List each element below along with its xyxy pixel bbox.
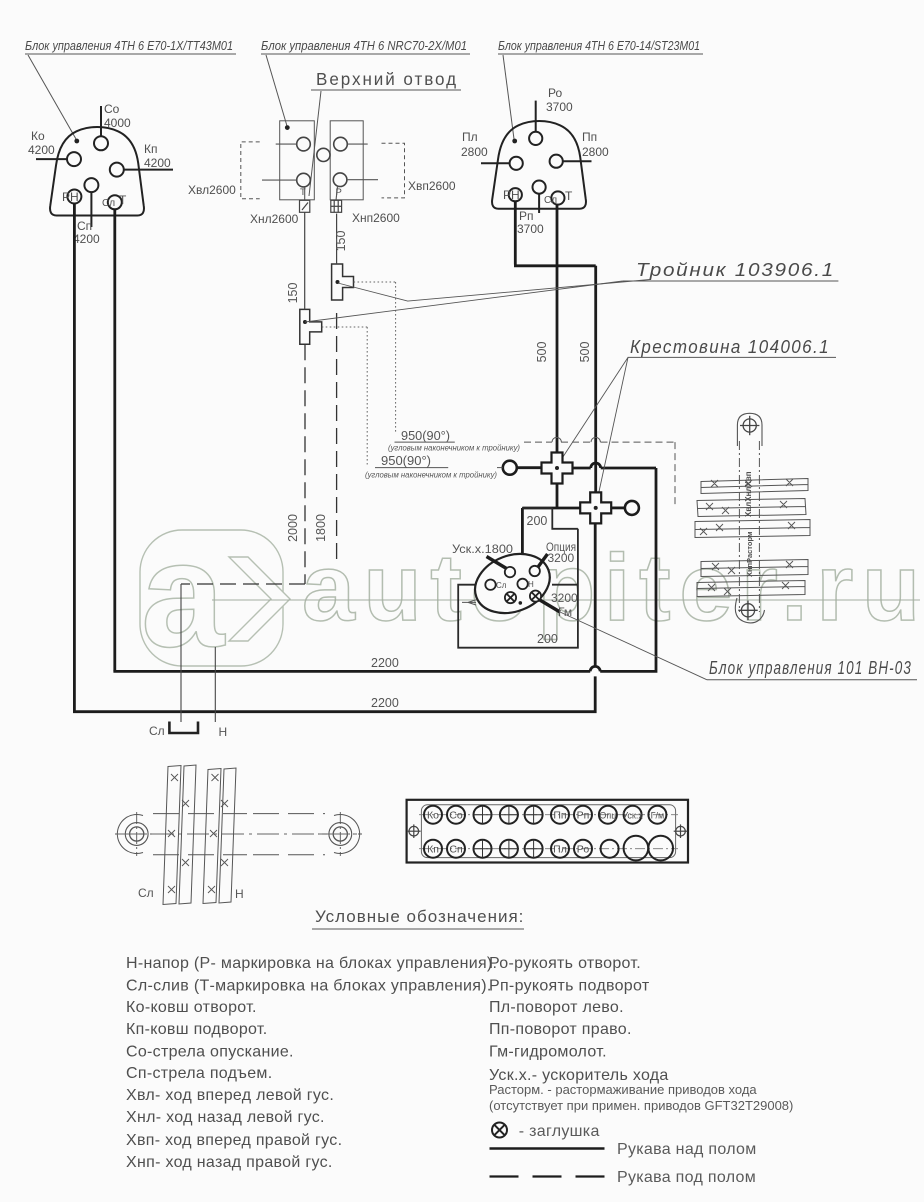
watermark letter a and arrow [141, 510, 290, 678]
svg-text:Ко: Ко [427, 810, 439, 822]
bottom drawing x marks [168, 774, 228, 893]
dashed hose 1800 under floor [336, 313, 338, 565]
svg-text:Ко: Ко [31, 129, 45, 143]
block B port TR [334, 137, 348, 151]
svg-text:950(90°): 950(90°) [381, 454, 431, 468]
svg-text:Условные обозначения:: Условные обозначения: [315, 907, 524, 926]
enclosure box 101 [458, 508, 578, 648]
panel centerlines [419, 814, 678, 816]
block C stub line Pl [481, 162, 510, 164]
leader to tee1 [338, 280, 650, 302]
svg-text:Кп-ковш подворот.: Кп-ковш подворот. [126, 1021, 267, 1038]
svg-text:3700: 3700 [546, 100, 573, 114]
svg-text:2200: 2200 [371, 696, 399, 710]
svg-text:2800: 2800 [461, 145, 488, 159]
svg-text:Т: Т [119, 193, 127, 207]
svg-text:Расторм. - растормаживание при: Расторм. - растормаживание приводов хода [489, 1082, 757, 1097]
label верхний отвод [309, 69, 461, 196]
svg-text:Пл: Пл [462, 130, 478, 144]
svg-text:500: 500 [535, 342, 549, 363]
svg-text:2800: 2800 [582, 145, 609, 159]
svg-text:200: 200 [527, 514, 548, 528]
dashed dim line to crosses [524, 442, 675, 505]
block C labels [461, 86, 609, 236]
caption label block A [25, 38, 236, 139]
svg-text:(угловым наконечником к тройни: (угловым наконечником к тройнику) [388, 443, 520, 453]
svg-text:2200: 2200 [371, 656, 399, 670]
svg-text:Г/м: Г/м [651, 811, 665, 821]
svg-text:Рп-рукоять подворот: Рп-рукоять подворот [489, 978, 650, 995]
bottom drawing frame lines [153, 814, 325, 855]
cross 1 (krestovina) [542, 453, 573, 484]
right bundle top tab [737, 413, 762, 446]
101 plug port 1 [505, 592, 516, 603]
block C port P [509, 188, 522, 201]
block C stub line Pp [563, 160, 592, 162]
hose bottom inner 2200 [113, 463, 656, 673]
block C stub line Po [535, 101, 537, 132]
block A port T [108, 195, 122, 209]
svg-text:Хвл2600: Хвл2600 [188, 183, 236, 197]
bottom drawing left wheel [115, 812, 160, 856]
block B port TL [297, 137, 311, 151]
panel bottom row circles [424, 836, 673, 861]
svg-text:Т: Т [565, 189, 573, 203]
block A stub line Kn [124, 169, 173, 171]
svg-text:Уск.х.1800: Уск.х.1800 [452, 542, 513, 556]
svg-text:3700: 3700 [517, 222, 544, 236]
block A port Kn [110, 163, 124, 177]
panel labels top [427, 810, 664, 822]
hop arcs on dashed dim [552, 437, 600, 442]
hose C-P down [514, 201, 596, 492]
legend right column [489, 955, 669, 1084]
svg-text:Сл: Сл [544, 195, 557, 206]
block B fitting right [331, 200, 342, 212]
right bundle axis lines [739, 441, 759, 612]
svg-text:Рп: Рп [577, 810, 590, 822]
svg-text:ХвлХнлХвп: ХвлХнлХвп [744, 471, 753, 517]
block A port Co [94, 136, 108, 150]
hose bottom outer 2200 [73, 523, 600, 713]
svg-text:2000: 2000 [286, 514, 300, 542]
block A port Cp [84, 178, 98, 192]
svg-text:Хвп- ход вперед правой гус.: Хвп- ход вперед правой гус. [126, 1132, 342, 1149]
svg-text:3200: 3200 [548, 551, 575, 565]
svg-text:150: 150 [334, 231, 348, 252]
svg-text:Н-напор (Р- маркировка на блок: Н-напор (Р- маркировка на блоках управле… [126, 955, 497, 972]
svg-text:Блок управления 101 ВН-03: Блок управления 101 ВН-03 [709, 658, 912, 678]
svg-text:Ко-ковш отворот.: Ко-ковш отворот. [126, 999, 257, 1016]
pump line Sl [180, 584, 182, 722]
bottom drawing right wheel [318, 812, 362, 856]
block B port BR [333, 173, 347, 187]
block B port mid [317, 148, 330, 161]
svg-text:Рукава под полом: Рукава под полом [617, 1169, 756, 1186]
svg-text:Гм-гидромолот.: Гм-гидромолот. [489, 1044, 607, 1061]
svg-text:Пл-поворот лево.: Пл-поворот лево. [489, 999, 624, 1016]
svg-text:Р: Р [336, 187, 342, 198]
svg-text:4200: 4200 [73, 232, 100, 246]
svg-text:Тройник 103906.1: Тройник 103906.1 [636, 260, 835, 280]
svg-text:Блок управления 4ТН 6 NRC70-2Х: Блок управления 4ТН 6 NRC70-2Х/М01 [261, 38, 467, 53]
svg-text:Уск.х: Уск.х [622, 811, 643, 821]
svg-text:ХнпРасторм: ХнпРасторм [745, 531, 754, 577]
block B port lines [262, 144, 378, 200]
svg-text:Сп: Сп [77, 219, 92, 233]
hose C-T down [556, 205, 559, 453]
svg-text:Опц: Опц [599, 811, 616, 821]
panel bolts [407, 824, 687, 838]
svg-text:a: a [141, 510, 226, 678]
101 port N [517, 579, 527, 589]
block C port Pn center [533, 181, 546, 194]
dotted line tee2 to 950 dim [322, 327, 368, 465]
legend left column [126, 955, 497, 1171]
thin line left of port circle [497, 467, 503, 469]
rastorm port arrow [462, 600, 476, 605]
svg-text:Блок управления 4ТН 6 Е70-1Х/Т: Блок управления 4ТН 6 Е70-1Х/ТТ43М01 [25, 38, 233, 53]
connector panel outer [407, 800, 688, 863]
block C port Pp [550, 155, 563, 168]
hose A-P down left [73, 204, 76, 712]
svg-text:950(90°): 950(90°) [401, 429, 450, 443]
svg-text:Кп: Кп [427, 844, 439, 856]
block C id dot [512, 139, 517, 144]
svg-text:4200: 4200 [144, 156, 171, 170]
block B dashed bracket right [382, 143, 405, 198]
cross 1 port circle [503, 461, 517, 475]
block C stub line Pn [538, 194, 540, 213]
block A stub line Ko [36, 158, 67, 160]
cross 2 port circle [625, 501, 639, 515]
101 port Usk.h [505, 567, 515, 577]
block A id dot [74, 139, 79, 144]
line fitting to tee2 [304, 212, 306, 309]
svg-text:Хвл- ход вперед левой гус.: Хвл- ход вперед левой гус. [126, 1087, 334, 1104]
svg-text:Рп: Рп [519, 209, 534, 223]
svg-text:Хнп2600: Хнп2600 [352, 211, 400, 225]
right bundle bottom tab [735, 598, 764, 623]
block B dashed bracket left [241, 142, 260, 199]
svg-text:Сл: Сл [138, 886, 154, 900]
panel top row circles [424, 806, 666, 824]
bottom drawing band 2 [203, 768, 236, 904]
block A stub line Co [100, 106, 102, 136]
svg-text:Ро: Ро [548, 86, 562, 100]
leader to cross2 [596, 357, 628, 505]
block A port Ko [67, 152, 81, 166]
101 stub Usk.h [487, 557, 507, 569]
block B hose labels [188, 179, 456, 226]
101 port Sl [485, 580, 495, 590]
svg-text:Н: Н [70, 190, 79, 204]
hose A-T down left [113, 209, 116, 671]
dashed hose 2000 under floor [181, 344, 305, 584]
svg-text:Р: Р [503, 188, 511, 202]
svg-text:Со: Со [449, 810, 463, 822]
block B fitting left [300, 200, 310, 212]
watermark strike line [212, 599, 920, 601]
svg-text:3200: 3200 [551, 591, 578, 605]
block C port Po [529, 132, 542, 145]
watermark logo box [140, 530, 283, 666]
svg-text:Верхний отвод: Верхний отвод [316, 69, 458, 89]
svg-text:150: 150 [286, 283, 300, 304]
svg-text:Р: Р [62, 190, 70, 204]
caption label block B [261, 38, 470, 126]
svg-text:Т: Т [300, 187, 306, 198]
svg-text:Пл: Пл [553, 844, 567, 856]
panel labels bottom [427, 844, 589, 856]
svg-text:Сл: Сл [149, 724, 165, 738]
svg-text:Ро-рукоять отворот.: Ро-рукоять отворот. [489, 955, 641, 972]
svg-text:Блок управления 4ТН 6 Е70-14/S: Блок управления 4ТН 6 Е70-14/SТ23М01 [498, 38, 700, 53]
svg-text:Пп-поворот право.: Пп-поворот право. [489, 1021, 632, 1038]
svg-text:Сл-слив (Т-маркировка на блока: Сл-слив (Т-маркировка на блоках управлен… [126, 978, 492, 995]
caption label block C [498, 38, 703, 139]
block 101 VN-03 oval [466, 544, 558, 624]
control block C outline [492, 121, 586, 209]
svg-text:Пп: Пп [582, 130, 597, 144]
svg-text:- заглушка: - заглушка [514, 1123, 600, 1140]
101 stub Gm [539, 600, 560, 613]
block C port T [551, 191, 564, 204]
leader to cross1 [557, 357, 628, 466]
svg-text:Сл: Сл [102, 198, 115, 209]
svg-text:Н: Н [219, 725, 228, 739]
svg-text:(угловым наконечником к тройни: (угловым наконечником к тройнику) [365, 470, 497, 480]
svg-text:Хвп2600: Хвп2600 [408, 179, 456, 193]
bottom drawing center line [117, 833, 362, 835]
leader 101 [560, 612, 707, 680]
legend plug symbol [492, 1123, 507, 1138]
pump symbol [169, 722, 198, 734]
svg-text:(отсутствует при примен. приво: (отсутствует при примен. приводов GFT32T… [489, 1098, 793, 1113]
block C port Pl [510, 157, 523, 170]
svg-text:Ро: Ро [577, 844, 590, 856]
block A port P [67, 190, 81, 204]
svg-text:Сп: Сп [449, 844, 462, 856]
right bundle strips [695, 479, 810, 597]
svg-text:Н: Н [528, 580, 534, 589]
svg-text:Крестовина 104006.1: Крестовина 104006.1 [630, 337, 830, 357]
cross 2 (krestovina) [580, 492, 611, 523]
tee 1 (trojnik) [332, 264, 354, 300]
dotted line tee1 to 950 dim [354, 282, 396, 432]
101 plug port Gm [530, 591, 541, 602]
svg-text:200: 200 [537, 632, 558, 646]
legend hose under floor [490, 1175, 609, 1177]
svg-text:autopiter.ru: autopiter.ru [302, 535, 920, 641]
svg-text:Со: Со [104, 102, 120, 116]
svg-text:Хнл- ход назад левой гус.: Хнл- ход назад левой гус. [126, 1109, 325, 1126]
tee 2 (trojnik) [300, 309, 322, 344]
svg-text:4200: 4200 [28, 143, 55, 157]
block B port BL [297, 173, 311, 187]
101 small dot [519, 601, 523, 605]
right bundle x marks [700, 479, 795, 595]
leader to tee2 [305, 281, 623, 322]
101 stub Opcija [538, 554, 548, 567]
pump line N [214, 647, 216, 722]
line fitting to tee1 [336, 214, 338, 264]
cross1 bottom to cross2 hose [522, 484, 580, 579]
panel cross marks [474, 806, 543, 858]
block A labels [28, 102, 171, 246]
101 port Opcija [530, 566, 540, 576]
bottom drawing band 1 [163, 765, 196, 905]
svg-text:Пп: Пп [553, 810, 566, 822]
svg-text:Сп-стрела подъем.: Сп-стрела подъем. [126, 1065, 272, 1082]
control block A outline [50, 127, 144, 215]
svg-text:Со-стрела опускание.: Со-стрела опускание. [126, 1044, 294, 1061]
svg-text:500: 500 [578, 342, 592, 363]
svg-text:1800: 1800 [314, 514, 328, 542]
svg-text:4000: 4000 [104, 116, 131, 130]
connector panel inner [421, 805, 675, 858]
legend hose over floor [490, 1147, 605, 1150]
control block B right half [330, 121, 363, 200]
control block B left half [280, 121, 315, 200]
svg-text:Рукава над полом: Рукава над полом [617, 1141, 757, 1158]
block A stub line Cp [90, 192, 92, 227]
svg-text:Н: Н [235, 887, 244, 901]
block B id dot [285, 125, 290, 130]
svg-text:Сл: Сл [496, 581, 507, 590]
svg-text:Кп: Кп [144, 142, 158, 156]
svg-text:Хнп- ход назад правой гус.: Хнп- ход назад правой гус. [126, 1154, 333, 1171]
svg-text:Н: Н [511, 188, 520, 202]
svg-text:Хнл2600: Хнл2600 [250, 212, 299, 226]
